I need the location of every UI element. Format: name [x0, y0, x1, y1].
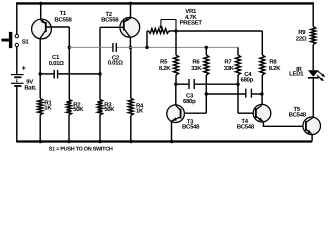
- wire: rail to S1: [16, 2, 18, 34]
- transistor T4 BC548 (NPN): [253, 104, 271, 122]
- capacitor C3 680p: [188, 79, 190, 89]
- wire: R2 to bottom rail: [68, 115, 70, 142]
- node: R2 on bottom rail: [67, 140, 70, 143]
- svg-text:S1 = PUSH TO ON SWITCH: S1 = PUSH TO ON SWITCH: [49, 147, 113, 153]
- svg-text:680p: 680p: [183, 98, 196, 105]
- node: T1 emitter on rail: [39, 2, 42, 5]
- capacitor C2 0.01: [112, 43, 114, 52]
- wire: node to R4: [130, 47, 132, 98]
- wire: T2 base column down: [99, 27, 101, 99]
- wire: T5 emitter to bottom rail: [311, 134, 313, 141]
- resistor R1: [38, 98, 43, 114]
- wire: C3 to R7 line: [195, 83, 238, 85]
- node: R5 / C3 / T3 collector junction: [174, 83, 177, 86]
- VR1 wiper arrowhead: [159, 26, 162, 29]
- wire: top rail to R9: [312, 2, 314, 26]
- svg-text:0.01Ω: 0.01Ω: [108, 60, 123, 67]
- svg-text:Batt.: Batt.: [24, 84, 36, 91]
- wire: R5 to T3 collector node: [175, 75, 177, 84]
- node: R6 top on wire: [205, 46, 208, 49]
- node: VR1 left on wire: [145, 46, 148, 49]
- svg-text:PRESET: PRESET: [180, 20, 203, 27]
- node: R7 line / C3-right junction: [236, 83, 239, 86]
- wire: C1 to T2 base column: [58, 73, 100, 75]
- wire: wiper loop to right terminal: [161, 20, 176, 32]
- svg-text:R8: R8: [269, 59, 277, 66]
- switch S1 (push-to-on): [2, 39, 9, 42]
- node: C4 / R8 / T4 collector junction: [260, 92, 263, 95]
- transistor T1 BC558 (PNP): [32, 19, 52, 39]
- svg-text:R5: R5: [160, 59, 168, 66]
- wire: node to R2: [68, 47, 70, 99]
- node: VR1 right / wiper / R5 junction: [174, 29, 177, 32]
- svg-text:BC548: BC548: [289, 112, 307, 119]
- resistor R8 8.2K: [260, 55, 265, 75]
- wire: junction down to R5 (crosses gray wire): [175, 31, 177, 55]
- wire: to T4 base: [238, 112, 253, 114]
- resistor R2: [67, 99, 72, 114]
- svg-text:T1: T1: [59, 10, 66, 17]
- wire: top +9V rail: [17, 2, 313, 4]
- resistor R9 22ohm: [311, 27, 316, 45]
- resistor R7 33K: [236, 55, 241, 75]
- wire: R8 to node: [261, 75, 263, 94]
- capacitor C4 680p: [245, 89, 247, 98]
- wire: R7 down (crosses C4 wire): [237, 75, 239, 113]
- wire: T1 base node to C2: [69, 46, 112, 48]
- node: R3 on bottom rail: [98, 140, 101, 143]
- node: R4 on bottom rail: [129, 140, 132, 143]
- node: C1 / T2 base / R3 junction: [98, 72, 101, 75]
- LED1 emission arrows: [318, 71, 324, 76]
- wire: T1 base right: [46, 26, 69, 28]
- wire: R6 down (crosses C3 wire): [205, 75, 207, 113]
- LED1 triangle: [308, 70, 319, 77]
- wire: R9 to LED: [312, 45, 314, 71]
- wire: R4 to bottom rail: [130, 116, 132, 143]
- wire: T2 collector down: [129, 37, 131, 47]
- svg-text:BC558: BC558: [101, 16, 119, 23]
- wire: T1 base down to node: [68, 27, 70, 47]
- wire: T3 emitter to bottom rail: [171, 121, 173, 142]
- wire: to T3 base: [184, 112, 206, 114]
- svg-text:BC558: BC558: [54, 17, 72, 24]
- wire: C4 to R8/T4 node: [252, 93, 262, 95]
- transistor T5 BC548 (NPN): [303, 117, 321, 135]
- svg-text:S1: S1: [22, 38, 30, 45]
- wire: R3 to bottom rail: [99, 115, 101, 142]
- svg-text:8.2K: 8.2K: [159, 65, 171, 72]
- potentiometer VR1 4.7K body: [149, 29, 170, 34]
- resistor R6 33K: [204, 55, 209, 75]
- svg-text:50K: 50K: [104, 106, 115, 113]
- node: T1 base / R2 / C2-wire junction: [68, 46, 71, 49]
- node: T2 emitter on rail: [129, 2, 132, 5]
- wire: T1 collector to C1: [40, 73, 53, 75]
- resistor R3: [98, 99, 103, 114]
- node: R6 line / C4-left junction: [205, 92, 208, 95]
- svg-text:LED1: LED1: [289, 71, 304, 78]
- svg-text:8.2K: 8.2K: [269, 65, 281, 72]
- resistor R5 8.2K: [174, 55, 179, 75]
- wire: rail to T1 emitter: [40, 2, 42, 20]
- wire: node to T3 collector: [175, 84, 177, 105]
- wire: rail to T2 emitter: [130, 2, 132, 18]
- wire: battery to bottom rail: [16, 87, 18, 142]
- svg-text:C1: C1: [52, 54, 60, 61]
- wire: VR1 left leg: [146, 31, 148, 47]
- svg-text:33K: 33K: [224, 65, 235, 72]
- wire: T4 emitter to T5 base: [263, 122, 303, 127]
- capacitor C1 0.01: [53, 70, 55, 79]
- VR1 wiper arm: [160, 20, 162, 27]
- svg-text:0.01Ω: 0.01Ω: [49, 60, 64, 67]
- wire: node to T4 collector: [261, 94, 263, 105]
- transistor T2 BC558 (PNP): [120, 17, 140, 37]
- wire: T1 collector down: [39, 38, 41, 98]
- wire: gray wire end down to R7: [237, 47, 239, 55]
- svg-text:33K: 33K: [191, 65, 202, 72]
- resistor R4: [128, 98, 133, 116]
- wire: node to C3: [176, 83, 189, 85]
- wire: S1 to battery: [16, 47, 18, 74]
- svg-text:1K: 1K: [136, 107, 144, 114]
- svg-text:680p: 680p: [241, 76, 254, 83]
- node: R1 on bottom rail: [39, 140, 42, 143]
- battery + sign: [22, 67, 26, 69]
- wire: LED to T5 collector: [312, 79, 314, 118]
- battery 9V Batt.: [11, 74, 24, 76]
- wire: VR1 rail corner down to R8: [261, 31, 263, 55]
- wire: to R6: [205, 47, 207, 55]
- svg-text:50K: 50K: [73, 106, 84, 113]
- wire: to VR1 body: [147, 30, 149, 32]
- node: T3 emitter on bottom rail: [170, 140, 173, 143]
- svg-text:BC548: BC548: [182, 124, 200, 131]
- svg-text:BC548: BC548: [237, 124, 255, 131]
- wire: C2 to R7 top: [117, 46, 238, 48]
- wire: R6 line to C4 (crosses R7 line): [206, 93, 245, 95]
- wire: VR1 body to junction: [169, 30, 176, 32]
- wire: bottom 0V rail: [17, 140, 313, 142]
- LED1 cathode bar: [308, 77, 319, 79]
- svg-text:22Ω: 22Ω: [296, 35, 307, 42]
- svg-text:R9: R9: [298, 29, 306, 36]
- wire: VR1 junction to R8 top: [176, 30, 262, 32]
- transistor T3 BC548 (NPN): [167, 105, 185, 123]
- svg-text:1K: 1K: [44, 105, 52, 112]
- wire: R1 to bottom rail: [39, 115, 41, 142]
- node: T2 collector / C2 / R4 junction: [129, 46, 132, 49]
- wire: T2 base left: [100, 26, 123, 28]
- svg-text:R7: R7: [224, 59, 232, 66]
- node: T1 collector / C1 junction: [39, 72, 42, 75]
- svg-text:R6: R6: [192, 59, 200, 66]
